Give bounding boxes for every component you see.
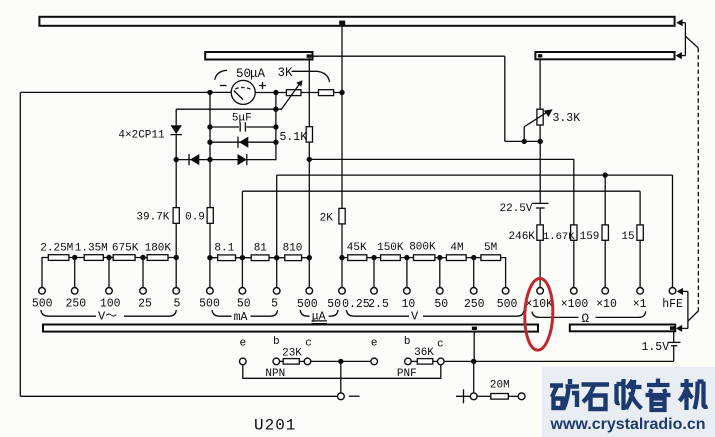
wire S1e to 1.5V battery xyxy=(673,331,675,342)
label minus jack xyxy=(349,395,360,397)
wire x10 column from row B xyxy=(604,175,606,225)
svg-text:b: b xyxy=(404,336,411,348)
resistor 2.25M xyxy=(48,255,69,261)
resistor 36K xyxy=(417,359,433,365)
wire arrow1 to common riser xyxy=(682,22,685,24)
svg-text:×100: ×100 xyxy=(561,298,589,311)
node Vac 100 xyxy=(106,255,111,260)
wire arrow3 stub xyxy=(682,290,688,292)
watermark glyph yin xyxy=(646,379,671,411)
resistor 20M xyxy=(491,394,509,400)
terminal V500 xyxy=(502,288,509,295)
svg-text:5: 5 xyxy=(271,298,278,311)
wire row B (y175) xyxy=(277,174,673,176)
node x342 meter row xyxy=(339,90,344,95)
wire 1.5V battery to rail xyxy=(673,346,675,362)
meter scale arc xyxy=(235,87,250,89)
terminal x1 xyxy=(637,288,644,295)
svg-text:b: b xyxy=(273,336,280,348)
svg-text:810: 810 xyxy=(283,242,303,254)
terminal mA50 xyxy=(239,288,246,295)
svg-text:250: 250 xyxy=(464,298,485,311)
resistor 15 xyxy=(637,225,643,240)
potentiometer wiper arrow xyxy=(281,84,299,110)
wire Vdc terminal stubs xyxy=(342,258,474,288)
node 3.3K wiper xyxy=(522,139,527,144)
resistor 150K xyxy=(381,255,401,261)
node x210 diode row2 xyxy=(207,140,212,145)
wiper contact on S1a at node x342 xyxy=(339,21,345,26)
resistor 5.1K xyxy=(306,127,312,142)
socket e PNF xyxy=(371,358,378,365)
svg-text:150K: 150K xyxy=(377,242,404,254)
label minus at meter xyxy=(220,85,227,87)
node x210 cap row xyxy=(207,124,212,129)
node Vac 5 xyxy=(174,255,179,260)
meter M 50uA body xyxy=(231,80,255,104)
svg-text:2.25M: 2.25M xyxy=(40,242,73,254)
brace mA section xyxy=(212,310,278,316)
svg-text:25: 25 xyxy=(138,298,152,311)
socket c PNF xyxy=(438,358,445,365)
resistor 1.67K xyxy=(571,225,577,240)
svg-text:V～: V～ xyxy=(98,310,117,324)
svg-text:5.1K: 5.1K xyxy=(279,131,307,144)
resistor 5M xyxy=(481,255,501,261)
wire b NPN to 23K xyxy=(280,360,284,362)
resistor 81 xyxy=(251,255,269,261)
terminal Vac100 xyxy=(106,288,113,295)
wire 159 to x10 terminal xyxy=(604,240,606,287)
svg-text:e: e xyxy=(239,338,246,350)
wire mA-5 column from row B xyxy=(276,175,278,258)
node common minus xyxy=(338,359,343,364)
svg-text:50: 50 xyxy=(237,298,251,311)
terminal mA500 xyxy=(207,288,214,295)
socket b NPN xyxy=(273,358,280,365)
svg-text:×1: ×1 xyxy=(633,298,647,311)
diode D4 (points left) xyxy=(237,137,239,148)
svg-text:U201: U201 xyxy=(254,417,296,435)
wire riser x505 xyxy=(504,56,506,141)
wire diode row2 y142 xyxy=(210,141,276,143)
label plus jack xyxy=(456,389,471,403)
node x540 ohm battery top xyxy=(538,139,543,144)
leader arc left (meter) xyxy=(215,70,227,80)
svg-text:Ω: Ω xyxy=(582,312,590,326)
wiper contact on S1b right end xyxy=(307,54,312,57)
svg-text:246K: 246K xyxy=(509,231,536,243)
wire 20M to HV jack xyxy=(508,395,518,397)
svg-text:20M: 20M xyxy=(490,380,510,392)
brace ohm section xyxy=(532,311,646,317)
terminal x10K xyxy=(537,288,544,295)
resistor 4M xyxy=(446,255,466,261)
node x276 diode row2 xyxy=(273,140,278,145)
svg-text:1.35M: 1.35M xyxy=(75,242,108,254)
wiper contact on S1d at node x474 xyxy=(472,327,477,330)
svg-text:800K: 800K xyxy=(409,242,436,254)
switch bus bar S1a (top) xyxy=(39,17,674,26)
terminal V50 xyxy=(437,288,444,295)
svg-text:5: 5 xyxy=(174,298,181,311)
svg-text:mA: mA xyxy=(234,311,248,324)
resistor 2K xyxy=(339,208,345,224)
resistor 246K xyxy=(537,225,543,240)
wire bottom rail xyxy=(20,395,337,397)
uA double underline xyxy=(312,321,328,324)
wire column x276 from meter row to row3 corner xyxy=(275,92,277,159)
wire S1b wiper to x505 riser (y56) xyxy=(312,55,505,57)
node mA 500 xyxy=(207,255,212,260)
wire arrow2 to common riser xyxy=(682,55,686,57)
watermark glyph kuang xyxy=(550,379,579,409)
svg-text:hFE: hFE xyxy=(662,298,683,311)
wire 3.3K bottom to node xyxy=(539,125,541,141)
svg-text:c: c xyxy=(437,339,444,351)
wire meter row left segment xyxy=(20,91,231,93)
wire e NPN lower link xyxy=(243,365,441,379)
terminal hFE jack xyxy=(669,288,676,295)
wire plus jack to 20M xyxy=(477,395,491,397)
terminal mA5 xyxy=(273,288,280,295)
svg-text:500: 500 xyxy=(199,298,220,311)
brace uA section xyxy=(300,310,338,316)
svg-text:15: 15 xyxy=(621,231,634,243)
svg-text:39.7K: 39.7K xyxy=(136,212,169,224)
node Vdc 50 xyxy=(437,255,442,260)
wire 23K to c NPN xyxy=(299,360,304,362)
wire diode rectifier row y109 xyxy=(176,108,276,110)
wire 0.9 to mA chain xyxy=(209,223,211,257)
terminal V10 xyxy=(404,288,411,295)
switch bus bar S1b (second row left) xyxy=(205,52,312,60)
switch bus bar S1d (lower left) xyxy=(43,325,538,332)
svg-text:×10: ×10 xyxy=(596,298,617,311)
node Vdc 0.25 xyxy=(339,255,344,260)
socket e NPN xyxy=(240,358,247,365)
wire meter plus to pot xyxy=(256,92,287,94)
annotation red ellipse around x10K xyxy=(524,278,554,351)
wire column x210 (0.9 ohm branch) xyxy=(209,92,211,207)
terminal Vac5 xyxy=(173,288,180,295)
node x276 cap row xyxy=(273,124,278,129)
jack plus xyxy=(470,393,477,400)
resistor 23K xyxy=(283,359,299,365)
svg-text:8.1: 8.1 xyxy=(214,242,234,254)
terminal V250 xyxy=(470,288,477,295)
svg-text:675K: 675K xyxy=(112,242,139,254)
brace Vac section xyxy=(41,310,176,316)
wire 246K to x10K terminal xyxy=(539,240,541,287)
svg-text:4M: 4M xyxy=(450,242,463,254)
node meter minus junction xyxy=(207,90,212,95)
wire diagonal from shaft to lower common xyxy=(688,311,699,321)
wire 5.1K to row A xyxy=(308,142,310,258)
terminal Vac25 xyxy=(140,288,147,295)
svg-text:www.crystalradio.cn: www.crystalradio.cn xyxy=(550,416,706,433)
svg-text:159: 159 xyxy=(580,231,600,243)
node uA 500 xyxy=(307,255,312,260)
svg-text:5M: 5M xyxy=(484,242,497,254)
node Vac 25 xyxy=(140,255,145,260)
watermark glyph ji xyxy=(680,379,708,410)
socket b PNF xyxy=(405,358,412,365)
node row B x605 xyxy=(603,172,608,177)
node x309 row A xyxy=(307,157,312,162)
terminal x100 xyxy=(571,288,578,295)
diode D1 4x2CP11 (pointing down) xyxy=(171,125,183,134)
wire diagonal to shaft dashed line xyxy=(685,36,698,48)
terminal V2.5 xyxy=(371,288,378,295)
wire c PNF to battery rail xyxy=(444,360,674,362)
wire S1c wiper to 3.3K top xyxy=(539,59,541,109)
brace Vdc section xyxy=(346,310,524,316)
svg-text:81: 81 xyxy=(254,242,268,254)
svg-text:×10K: ×10K xyxy=(525,298,553,311)
svg-text:2.5: 2.5 xyxy=(368,298,389,311)
resistor 675K xyxy=(113,255,135,261)
terminal x10 xyxy=(602,288,609,295)
terminal uA50/V0.25 xyxy=(339,288,346,295)
switch bus bar S1c (second row right) xyxy=(535,52,674,59)
svg-text:23K: 23K xyxy=(282,347,302,359)
wire hFE column from row B xyxy=(672,175,674,287)
wire common riser top xyxy=(684,23,686,56)
wire column x309 from S1b wiper down xyxy=(308,58,310,127)
resistor 180K xyxy=(147,255,168,261)
wire mA terminal stubs xyxy=(210,258,309,288)
svg-text:1.5V: 1.5V xyxy=(642,341,670,354)
diode D3 (points right) xyxy=(238,154,247,165)
svg-text:μA: μA xyxy=(250,67,266,81)
wire lower common riser xyxy=(687,291,689,328)
wire row C (y191.2) xyxy=(242,190,640,192)
wire minus node to minus jack xyxy=(340,361,342,393)
wire mA chain xyxy=(210,257,309,259)
battery 22.5V plates xyxy=(532,202,548,204)
watermark glyph shou xyxy=(617,379,642,410)
wire pot wiper row y109 stub xyxy=(276,108,282,110)
rotary wiper arrow into S1c xyxy=(676,52,682,59)
battery 1.5V plates xyxy=(668,341,681,343)
wire 36K to c PNF xyxy=(433,360,438,362)
wire capacitor row y127 xyxy=(210,126,276,128)
wire 1.67K to x100 terminal xyxy=(573,240,575,287)
wire mA-50 column from row C xyxy=(241,191,243,258)
rotary wiper arrow into hFE terminal xyxy=(677,288,683,295)
svg-text:2K: 2K xyxy=(320,213,334,225)
resistor 159 xyxy=(602,225,608,240)
watermark glyph shi xyxy=(582,385,610,410)
node x176 diode row3 xyxy=(174,157,179,162)
rheostat 3.3K body xyxy=(537,109,543,125)
terminal Vac250 xyxy=(71,288,78,295)
svg-text:250: 250 xyxy=(65,298,86,311)
svg-text:50: 50 xyxy=(236,67,251,81)
wire column x176 lower xyxy=(175,135,177,208)
wire column x176 upper xyxy=(175,109,177,125)
node mA 50 xyxy=(240,255,245,260)
svg-text:5μF: 5μF xyxy=(232,112,252,124)
wire c NPN to common node xyxy=(311,360,371,362)
potentiometer body (zero adjust) xyxy=(286,90,301,96)
node Vdc 10 xyxy=(404,255,409,260)
svg-text:22.5V: 22.5V xyxy=(500,203,533,215)
svg-text:50: 50 xyxy=(434,298,448,311)
wire diode row3 xyxy=(176,159,276,161)
rotary shaft dashed line xyxy=(697,48,699,311)
wire row A (y159.4) to 1.67K column xyxy=(309,159,574,225)
node Vdc 2.5 xyxy=(371,255,376,260)
resistor 800K xyxy=(414,255,435,261)
svg-text:3.3K: 3.3K xyxy=(553,112,581,125)
svg-text:500: 500 xyxy=(297,298,318,311)
node x276 wiper row xyxy=(273,107,278,112)
node mA 5 xyxy=(274,255,279,260)
node Vac 250 xyxy=(72,255,77,260)
rotary wiper arrow into S1a xyxy=(676,19,682,26)
svg-text:0.25: 0.25 xyxy=(342,298,370,311)
wire Vac terminal stubs xyxy=(75,258,177,288)
svg-text:4×2CP11: 4×2CP11 xyxy=(118,129,165,141)
resistor 0.9 xyxy=(207,208,213,224)
wiper contact on S1e right end xyxy=(670,326,675,330)
jack minus xyxy=(338,393,345,400)
svg-text:3K: 3K xyxy=(278,66,294,80)
wire arrow4 stub xyxy=(682,327,688,329)
wire Vdc chain xyxy=(342,258,506,288)
wire y141 to ohm-adjust node xyxy=(505,140,540,142)
terminal Vac500 xyxy=(39,288,46,295)
resistor 1.35M xyxy=(84,255,103,261)
svg-text:180K: 180K xyxy=(145,242,172,254)
diode D2 (points left) xyxy=(188,154,190,165)
svg-text:45K: 45K xyxy=(347,242,367,254)
capacitor C1 5uF plates xyxy=(240,122,245,131)
wire Vac chain xyxy=(42,258,176,288)
resistor 45K xyxy=(348,255,367,261)
svg-text:500: 500 xyxy=(32,298,53,311)
meter needle xyxy=(234,91,243,100)
terminal uA500 xyxy=(306,288,313,295)
wire 2K to Vdc chain xyxy=(341,224,343,258)
resistor 39.7K xyxy=(173,208,179,224)
wire 39.7K to Vac chain xyxy=(175,223,177,257)
resistor 3K body xyxy=(319,90,334,96)
wire plus node to plus jack xyxy=(473,361,475,393)
svg-text:c: c xyxy=(305,338,312,350)
svg-text:e: e xyxy=(371,338,378,350)
wire battery to 246K xyxy=(539,208,541,225)
svg-text:50: 50 xyxy=(327,298,341,311)
svg-text:1.67K: 1.67K xyxy=(543,231,575,243)
leader line right (3K) xyxy=(292,71,330,82)
socket c NPN xyxy=(304,358,311,365)
svg-text:100: 100 xyxy=(100,298,121,311)
wire x1 column from row C xyxy=(639,191,641,225)
node x210 diode row3 xyxy=(207,157,212,162)
svg-text:V: V xyxy=(411,309,419,323)
wire 15 to x1 terminal xyxy=(639,240,641,287)
svg-text:36K: 36K xyxy=(414,347,434,359)
rheostat 3.3K wiper arm xyxy=(523,127,525,142)
wiper contact on S1c left end xyxy=(538,54,542,57)
resistor 8.1 xyxy=(218,255,236,261)
wire S1d wiper drop to node xyxy=(473,332,476,362)
switch bus bar S1e (lower right) xyxy=(570,325,675,332)
node Vdc 250 xyxy=(471,255,476,260)
wire 3K to node x342 xyxy=(334,92,342,94)
resistor 810 xyxy=(285,255,302,261)
label plus at meter xyxy=(259,82,266,89)
node x474 common xyxy=(471,359,476,364)
svg-text:0.9: 0.9 xyxy=(185,212,205,224)
svg-text:500: 500 xyxy=(497,298,518,311)
wire b PNF to 36K xyxy=(411,360,417,362)
wire left rail vertical xyxy=(19,92,21,396)
node meter plus junction xyxy=(273,90,278,95)
wire node to battery 22.5V xyxy=(539,141,541,203)
watermark band xyxy=(542,367,715,437)
jack 2500V xyxy=(518,393,525,400)
rotary wiper arrow into S1e xyxy=(676,325,682,332)
wire pot to resistor 3K xyxy=(301,92,319,94)
wire column x342 from S1a wiper down xyxy=(341,25,343,208)
